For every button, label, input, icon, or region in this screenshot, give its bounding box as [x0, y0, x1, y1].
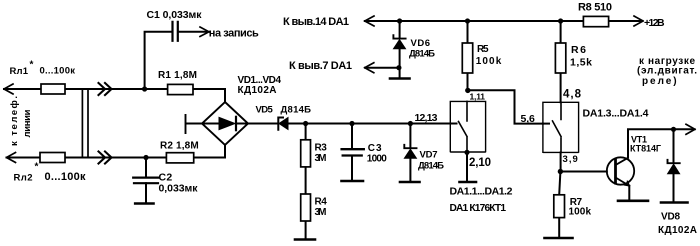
svg-text:Д814Б: Д814Б: [418, 161, 444, 172]
svg-text:R8 510: R8 510: [578, 2, 612, 14]
connector chevrons top: [99, 83, 112, 95]
right block input stub: [543, 123, 549, 125]
ground R7: [545, 237, 573, 240]
svg-text:C1 0,033мк: C1 0,033мк: [147, 9, 203, 21]
node R6 top junction: [558, 18, 563, 23]
wire 2,10 to ground: [466, 152, 468, 181]
wire collector: [628, 129, 693, 158]
ground VD7: [400, 181, 420, 184]
svg-text:4,8: 4,8: [563, 89, 582, 101]
ground VD8: [661, 201, 688, 204]
wire node to 5,6: [468, 90, 543, 123]
svg-text:(эл.двигат.: (эл.двигат.: [637, 65, 697, 76]
svg-text:R5: R5: [477, 44, 489, 55]
transistor VT1: [607, 157, 634, 184]
wire R3 R4 chain: [305, 124, 307, 238]
svg-text:3М: 3М: [315, 153, 327, 164]
resistor R1: [168, 84, 193, 94]
capacitor C2: [133, 178, 158, 184]
ground C3: [342, 180, 364, 183]
svg-text:VD7: VD7: [420, 150, 438, 161]
svg-text:R2 1,8М: R2 1,8М: [160, 141, 199, 152]
wire emitter to ground: [628, 186, 630, 200]
wire R7 branch: [559, 172, 560, 238]
left block switch symbol: [459, 101, 468, 152]
svg-text:5,6: 5,6: [521, 113, 535, 125]
wire C3 branch: [351, 124, 353, 181]
wire R5 branch: [467, 21, 469, 91]
svg-text:VD8: VD8: [661, 212, 680, 223]
right block switch symbol: [553, 102, 562, 152]
svg-text:R3: R3: [315, 142, 328, 153]
svg-text:2,10: 2,10: [469, 157, 491, 169]
node VD6 junction: [397, 18, 402, 23]
resistor R4: [301, 194, 311, 221]
wire main rail: [248, 123, 450, 125]
svg-text:C2: C2: [159, 171, 173, 183]
svg-text:*: *: [30, 60, 34, 71]
svg-text:DA1.1...DA1.2: DA1.1...DA1.2: [450, 186, 513, 198]
svg-text:Д814Б: Д814Б: [281, 104, 312, 115]
zener VD7: [404, 145, 416, 148]
svg-text:0...100к: 0...100к: [45, 171, 86, 183]
svg-text:0...100к: 0...100к: [40, 65, 76, 76]
wire VD8 branch: [673, 129, 675, 201]
capacitor C1: [173, 22, 178, 41]
wire C1 branch: [145, 32, 206, 89]
ground 2,10: [460, 181, 477, 184]
svg-text:3М: 3М: [315, 207, 327, 218]
wire bottom phone line: [7, 145, 226, 158]
switch block DA1.1-DA1.2: [450, 101, 485, 152]
node C1 junction: [142, 86, 147, 91]
node C2 junction: [143, 155, 148, 160]
svg-text:+12В: +12В: [644, 17, 665, 29]
arrow to load: [686, 124, 695, 134]
ground R4: [295, 238, 315, 241]
resistor R7: [554, 195, 565, 218]
resistor R8: [583, 16, 608, 26]
capacitor C3: [342, 149, 364, 155]
svg-text:DA1 К176КТ1: DA1 К176КТ1: [450, 203, 507, 214]
node 3,9 junction: [558, 169, 563, 174]
node VD7 junction: [408, 121, 413, 126]
arrow na zapis: [200, 27, 209, 37]
svg-text:R6: R6: [571, 44, 586, 56]
arrow k vyv 14: [365, 16, 374, 26]
diode bridge VD1-VD4: [202, 102, 248, 145]
zener VD8: [668, 160, 680, 163]
svg-text:1,5k: 1,5k: [570, 57, 592, 69]
svg-text:1,11: 1,11: [470, 91, 486, 101]
svg-text:0,033мк: 0,033мк: [159, 183, 199, 195]
wire base: [560, 171, 606, 173]
svg-text:VD5: VD5: [256, 104, 274, 115]
left block input stub: [450, 123, 456, 125]
wire VD7 branch: [409, 124, 411, 182]
svg-text:Rл2: Rл2: [14, 172, 33, 183]
svg-text:100k: 100k: [569, 206, 592, 217]
svg-text:*: *: [35, 162, 39, 173]
resistor R3: [301, 140, 311, 167]
svg-text:3,9: 3,9: [563, 154, 578, 165]
arrow k vyv 7: [365, 63, 374, 73]
svg-text:на запись: на запись: [209, 28, 259, 40]
wire R6 branch: [560, 21, 562, 102]
svg-text:100k: 100k: [476, 56, 502, 67]
resistor Rl1: [41, 84, 65, 94]
wire k vyv 7: [367, 67, 399, 69]
svg-text:линии: линии: [22, 109, 33, 137]
wire top rail: [365, 20, 641, 22]
wire 3,9 branch: [560, 152, 562, 171]
node 2,10: [464, 150, 469, 155]
bridge left terminal: [186, 115, 203, 133]
wire C2 to ground: [145, 183, 147, 202]
resistor R6: [555, 43, 565, 73]
svg-text:C3: C3: [368, 143, 382, 154]
svg-text:К выв.7 DA1: К выв.7 DA1: [289, 60, 352, 72]
wire VD6 branch: [399, 21, 401, 78]
node 1,11 junction: [465, 88, 470, 93]
arrow terminal bottom line: [7, 153, 16, 163]
node C3 junction: [349, 121, 354, 126]
svg-text:К выв.14 DA1: К выв.14 DA1: [283, 16, 349, 28]
node VD8 junction: [671, 127, 676, 132]
svg-text:12,13: 12,13: [415, 112, 438, 124]
switch block DA1.3-DA1.4: [543, 102, 579, 152]
svg-text:VD6: VD6: [411, 38, 431, 49]
arrow terminal top line: [4, 84, 13, 94]
svg-text:КТ814Г: КТ814Г: [630, 143, 661, 153]
resistor R2: [166, 153, 193, 163]
ground VT1 emitter: [618, 200, 648, 203]
svg-text:к телеф.: к телеф.: [9, 96, 20, 146]
zener VD6: [393, 35, 405, 38]
node R5 top junction: [465, 18, 470, 23]
svg-text:1000: 1000: [367, 154, 387, 165]
zener VD5: [279, 118, 288, 130]
arrow plus 12V: [634, 16, 643, 26]
wire C2 branch: [145, 158, 147, 178]
bridge internal diode: [204, 123, 246, 125]
node k vyv 7 junction: [396, 65, 401, 70]
resistor R5: [462, 43, 472, 73]
svg-text:Д814Б: Д814Б: [409, 48, 435, 59]
node R3 junction: [303, 121, 308, 126]
svg-text:КД102А: КД102А: [658, 225, 697, 236]
cable double vertical: [82, 89, 88, 158]
svg-text:R4: R4: [315, 196, 328, 207]
wire top phone line: [4, 89, 225, 102]
svg-text:Rл1: Rл1: [10, 66, 29, 77]
svg-text:R1 1,8М: R1 1,8М: [158, 70, 197, 81]
ground C2: [135, 202, 153, 205]
resistor Rl2: [40, 153, 65, 163]
connector chevrons bottom: [99, 152, 112, 164]
svg-text:КД102А: КД102А: [238, 85, 277, 96]
ground VD6: [390, 77, 410, 80]
svg-text:DA1.3...DA1.4: DA1.3...DA1.4: [583, 107, 649, 119]
